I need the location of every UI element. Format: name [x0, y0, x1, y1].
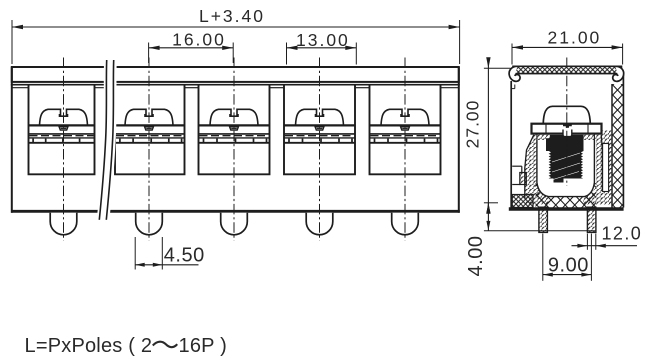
- svg-text:9.00: 9.00: [548, 254, 589, 276]
- svg-text:13.00: 13.00: [296, 30, 350, 50]
- svg-text:12.0: 12.0: [602, 224, 643, 244]
- svg-text:L=PxPoles ( 2: L=PxPoles ( 2: [25, 335, 153, 357]
- svg-text:16P ): 16P ): [179, 335, 227, 357]
- svg-text:4.00: 4.00: [465, 236, 487, 277]
- svg-text:27.00: 27.00: [463, 100, 483, 149]
- svg-text:L+3.40: L+3.40: [199, 6, 265, 26]
- svg-text:16.00: 16.00: [172, 29, 226, 49]
- svg-text:21.00: 21.00: [548, 27, 602, 47]
- svg-text:4.50: 4.50: [164, 244, 205, 266]
